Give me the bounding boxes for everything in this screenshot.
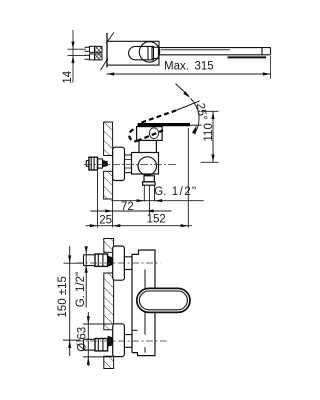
110 dim: [201, 111, 219, 162]
heavy under-edge segment: [228, 56, 267, 58]
dim 150 bottom arrow: [68, 340, 71, 348]
dim 25/152 shared arrow: [113, 224, 121, 227]
stub pipes top view: [85, 46, 103, 60]
svg-text:152: 152: [147, 213, 166, 225]
wall line top view with break marks: [100, 32, 114, 70]
dia 63 bottom arrow: [87, 357, 90, 365]
dim 14 line: [72, 30, 74, 83]
dia 63 dim: [83, 312, 113, 366]
union seat cone side view: [103, 160, 108, 167]
spout bar: [159, 47, 271, 49]
G 1/2 dim bottom view: [85, 247, 87, 308]
outlet ext lines down: [111, 185, 203, 215]
Max 315 left arrow: [107, 72, 115, 75]
25deg dim: [176, 84, 202, 133]
dim 14 arrow upper: [71, 42, 74, 50]
bottom union seat cone: [108, 336, 113, 347]
dim 14 arrow lower: [71, 55, 74, 63]
svg-text:315: 315: [195, 60, 214, 72]
G 1/2 front dim bottom arrow: [85, 265, 88, 273]
dia 63 top arrow: [87, 316, 90, 324]
top union fitting: [84, 254, 108, 266]
flange middle view: [113, 147, 125, 180]
72 dim: [90, 199, 171, 228]
svg-text:25: 25: [99, 215, 112, 227]
svg-text:14: 14: [62, 70, 74, 83]
svg-text:110: 110: [203, 123, 215, 141]
body inner step lines: [132, 270, 145, 353]
Max 315 right arrow: [263, 72, 271, 75]
svg-text:G.: G.: [154, 186, 166, 198]
raised lever reference line: [176, 101, 200, 110]
bottom union fitting: [84, 339, 108, 351]
lever plan view: [129, 46, 154, 59]
svg-text:Max.: Max.: [164, 60, 189, 72]
25 deg arc top arrow: [183, 91, 190, 98]
raised lever dashed: [129, 110, 176, 141]
G 1/2 dim right arrow: [155, 199, 163, 202]
G 1/2 dim line: [111, 200, 203, 202]
Max 315 dimension: [107, 56, 271, 79]
dim 72 left arrow: [105, 209, 113, 212]
bottom chain dims 25 + 152: [86, 128, 193, 228]
G 1/2 front dim top arrow: [85, 246, 88, 254]
wall strip pieces: [104, 239, 114, 369]
neck up to cover: [138, 140, 140, 152]
dim 150 top arrow: [68, 255, 71, 263]
dim 72 right arrow: [146, 209, 154, 212]
top flange: [113, 246, 125, 280]
svg-text:150 ±15: 150 ±15: [57, 276, 69, 318]
threaded neck: [125, 155, 132, 173]
wall hatched strip: [104, 122, 113, 199]
dim 25 left arrow: [90, 224, 98, 227]
dim 14 ext lines: [68, 48, 87, 50]
handle oval: [137, 288, 190, 312]
dim 110 top arrow: [211, 111, 214, 119]
svg-text:Ø 63: Ø 63: [77, 327, 89, 352]
svg-text:G. 1/2": G. 1/2": [75, 272, 87, 307]
dim 110 bottom arrow: [211, 155, 214, 163]
closed lever (thick bar): [138, 123, 190, 126]
centerlines dash-dot: [76, 262, 160, 264]
body slab: [132, 250, 155, 356]
bottom flange: [113, 324, 125, 357]
dim 152 right arrow: [181, 224, 189, 227]
cover rect: [137, 127, 163, 141]
svg-text:1/2": 1/2": [172, 186, 198, 198]
cartridge circle: [139, 42, 159, 62]
top neck: [124, 257, 132, 270]
svg-text:72: 72: [121, 201, 134, 213]
G 1/2 dim left arrow: [137, 199, 145, 202]
main body: [132, 127, 163, 186]
top union seat cone: [108, 256, 113, 267]
bottom neck: [124, 335, 132, 348]
centerline horizontal middle view: [84, 164, 177, 166]
inlet fitting left: [86, 157, 102, 170]
150 +-15 dim: [63, 246, 83, 356]
25 deg arc bottom arrow: [192, 125, 197, 134]
body rect top view: [107, 41, 271, 65]
bottom outlet: [144, 176, 154, 182]
